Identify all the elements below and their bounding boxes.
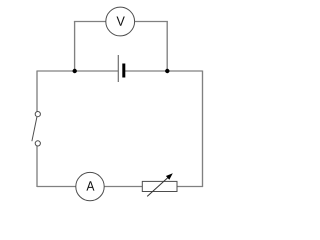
variable resistor (rheostat) body bbox=[142, 181, 177, 191]
ammeter A label bbox=[86, 181, 94, 190]
wire top-right segment (battery right) bbox=[124, 70, 203, 72]
wire left vertical lower (from switch) bbox=[36, 146, 38, 187]
rheostat arrow shaft bbox=[147, 177, 168, 196]
node junction dot left bbox=[73, 69, 77, 73]
voltmeter V circle bbox=[106, 7, 135, 36]
wire voltmeter branch left vertical bbox=[74, 22, 76, 72]
node junction dot right bbox=[165, 69, 169, 73]
wire voltmeter branch top-left horizontal bbox=[74, 21, 106, 23]
wire bottom right segment (rheostat to corner) bbox=[177, 186, 203, 188]
wire top-left segment (battery left) bbox=[37, 70, 118, 72]
wire voltmeter branch right vertical bbox=[166, 22, 168, 72]
battery cell long plate (positive) bbox=[117, 55, 119, 82]
battery cell short thick plate (negative) bbox=[122, 64, 125, 78]
wire bottom left segment (to ammeter) bbox=[37, 186, 76, 188]
voltmeter V label bbox=[117, 17, 125, 26]
switch bottom contact circle bbox=[35, 141, 40, 146]
wire bottom middle segment (ammeter to rheostat) bbox=[104, 186, 142, 188]
switch top contact circle bbox=[35, 112, 40, 117]
ammeter A circle bbox=[76, 172, 104, 200]
rheostat arrowhead bbox=[166, 173, 173, 180]
wire right vertical bbox=[202, 71, 204, 188]
switch lever (open) bbox=[32, 117, 37, 141]
wire left vertical upper (to switch) bbox=[36, 71, 38, 112]
wire voltmeter branch top-right horizontal bbox=[135, 21, 168, 23]
